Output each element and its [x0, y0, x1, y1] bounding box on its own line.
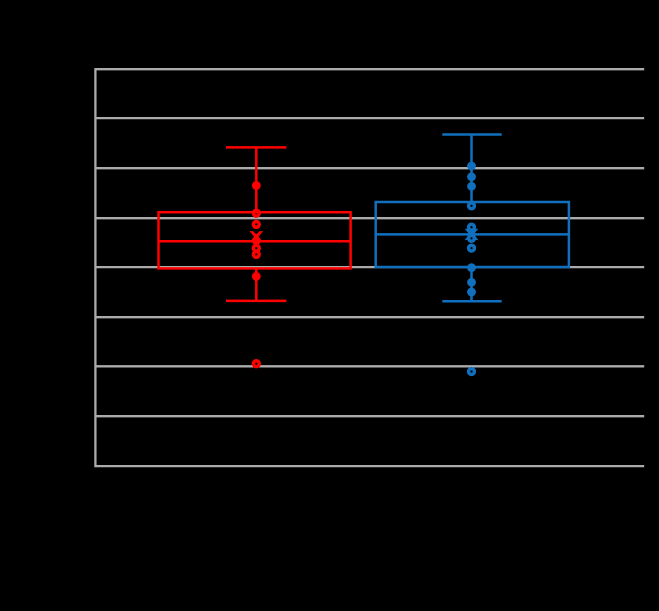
red point ring 3: [253, 245, 259, 251]
gridline y7: [95, 415, 644, 417]
red point ring 2: [253, 222, 259, 228]
red outlier ring: [253, 361, 259, 367]
red top whisker line: [255, 147, 258, 212]
blue median line: [376, 233, 569, 236]
red point ring 4: [253, 252, 259, 258]
red box: [159, 212, 351, 268]
blue box plot series: [376, 135, 569, 302]
red top whisker cap: [226, 146, 286, 149]
blue box: [376, 202, 569, 267]
blue bottom whisker cap: [442, 300, 501, 303]
red point ring 1: [253, 210, 259, 216]
axis vertical left: [94, 68, 96, 467]
red bottom whisker cap: [226, 300, 286, 303]
blue point filled 3: [467, 182, 476, 191]
blue top whisker line: [470, 135, 473, 203]
red point filled 1: [252, 181, 261, 190]
gridline y0 top: [95, 68, 644, 70]
blue mean X marker: [465, 229, 479, 240]
blue point filled 6: [467, 288, 476, 297]
red point filled 2: [252, 236, 261, 245]
blue point ring 1: [469, 203, 475, 209]
gridline y4: [95, 266, 644, 268]
blue point ring 2: [469, 224, 475, 230]
gridline y6: [95, 365, 644, 367]
blue point ring 3: [469, 235, 475, 241]
blue outlier ring: [469, 369, 475, 375]
blue point ring 4: [469, 245, 475, 251]
red point filled 3: [252, 272, 261, 281]
gridline y5: [95, 316, 644, 318]
gridline y8 bottom: [95, 465, 644, 467]
red bottom whisker line: [255, 268, 258, 301]
red median line: [159, 240, 351, 243]
gridline y3: [95, 217, 644, 219]
gridline y2: [95, 167, 644, 169]
red box plot series: [159, 147, 351, 301]
blue point filled 5: [467, 278, 476, 287]
axis gridlines: [95, 68, 644, 467]
gridline y1: [95, 117, 644, 119]
blue point filled 4: [467, 263, 476, 272]
red mean X marker: [250, 231, 264, 242]
blue point filled 1: [467, 162, 476, 171]
blue top whisker cap: [442, 133, 501, 136]
blue bottom whisker line: [470, 267, 473, 301]
blue point filled 2: [467, 172, 476, 181]
